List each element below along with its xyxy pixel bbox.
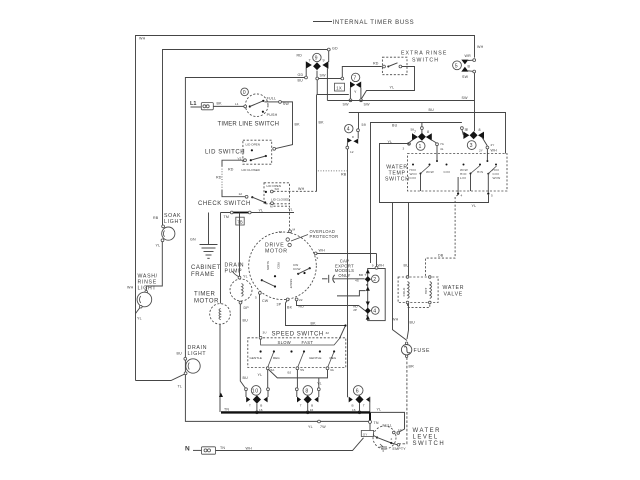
svg-text:9: 9 — [317, 256, 319, 260]
svg-text:BU: BU — [410, 321, 416, 325]
svg-text:12: 12 — [350, 150, 354, 154]
svg-text:7W: 7W — [320, 425, 326, 429]
svg-text:LEVEL: LEVEL — [413, 435, 439, 441]
svg-text:RD: RD — [297, 54, 303, 58]
svg-text:7: 7 — [309, 59, 311, 63]
svg-text:GD: GD — [298, 73, 304, 77]
svg-text:8: 8 — [427, 130, 429, 134]
svg-text:2: 2 — [373, 277, 377, 283]
svg-text:BK: BK — [311, 322, 317, 326]
svg-text:LID CLOSED: LID CLOSED — [271, 198, 290, 202]
svg-text:WH: WH — [298, 187, 305, 191]
svg-text:2: 2 — [391, 437, 393, 441]
svg-text:WH: WH — [378, 263, 385, 267]
svg-text:LID SWITCH: LID SWITCH — [205, 150, 245, 156]
svg-text:22: 22 — [299, 298, 303, 302]
svg-text:8: 8 — [479, 128, 481, 132]
svg-text:C=O: C=O — [410, 176, 417, 180]
svg-text:BK: BK — [319, 121, 325, 125]
svg-text:SLOW: SLOW — [278, 340, 292, 345]
svg-text:SW: SW — [320, 74, 327, 78]
svg-text:LID OPEN: LID OPEN — [246, 142, 260, 146]
svg-text:EMPTY: EMPTY — [393, 447, 407, 451]
svg-text:SWITCH: SWITCH — [412, 58, 439, 64]
svg-text:BU: BU — [243, 376, 249, 380]
svg-text:Y: Y — [354, 90, 357, 94]
svg-text:LID CLOSED: LID CLOSED — [242, 168, 261, 172]
svg-text:TN: TN — [220, 446, 225, 450]
svg-text:COLD: COLD — [402, 287, 406, 296]
svg-text:BU: BU — [429, 108, 435, 112]
svg-text:BK: BK — [217, 102, 223, 106]
svg-text:RD: RD — [228, 168, 234, 172]
svg-text:B: B — [366, 283, 368, 287]
svg-text:BK: BK — [287, 306, 293, 310]
svg-text:1X: 1X — [336, 85, 342, 90]
svg-text:7B: 7B — [237, 219, 243, 224]
svg-text:FRAME: FRAME — [191, 272, 215, 278]
svg-text:C=O: C=O — [444, 170, 451, 174]
svg-text:N: N — [185, 446, 190, 453]
svg-text:TL: TL — [178, 385, 183, 389]
svg-text:LIGHT: LIGHT — [188, 351, 207, 357]
svg-text:RB: RB — [341, 173, 347, 177]
svg-text:BR: BR — [359, 273, 364, 277]
svg-text:YL: YL — [317, 382, 322, 386]
svg-text:WH: WH — [139, 37, 146, 41]
svg-text:YL: YL — [243, 275, 248, 279]
svg-text:ONLY: ONLY — [338, 273, 350, 278]
svg-text:GENTLE: GENTLE — [250, 356, 262, 360]
svg-text:SO: SO — [275, 187, 280, 191]
svg-text:BU: BU — [177, 352, 183, 356]
svg-text:9: 9 — [323, 59, 325, 63]
svg-text:YL: YL — [288, 208, 293, 212]
svg-text:1: 1 — [419, 144, 423, 150]
svg-text:SW: SW — [462, 96, 469, 100]
svg-text:TN: TN — [374, 421, 379, 425]
svg-text:8: 8 — [305, 389, 309, 395]
svg-text:SWITCH: SWITCH — [385, 177, 410, 183]
svg-text:WATER: WATER — [413, 428, 442, 434]
svg-text:WR: WR — [465, 54, 472, 58]
svg-text:4: 4 — [347, 127, 351, 133]
svg-text:7: 7 — [353, 76, 357, 82]
svg-text:59: 59 — [362, 123, 366, 127]
svg-text:W=W: W=W — [426, 170, 434, 174]
svg-text:7: 7 — [414, 130, 416, 134]
svg-text:START: START — [289, 279, 293, 289]
svg-text:BU: BU — [392, 124, 398, 128]
svg-text:TIMER: TIMER — [194, 292, 216, 298]
svg-text:WH: WH — [392, 318, 399, 322]
svg-text:H=S: H=S — [477, 170, 483, 174]
svg-text:BK: BK — [295, 123, 301, 127]
svg-text:L=O: L=O — [460, 176, 467, 180]
svg-text:T: T — [366, 314, 368, 318]
svg-text:VALVE: VALVE — [444, 292, 463, 298]
svg-text:YL: YL — [137, 317, 142, 321]
svg-text:L1: L1 — [190, 101, 196, 107]
svg-text:WH: WH — [246, 447, 253, 451]
svg-text:CCW: CCW — [293, 267, 300, 271]
svg-text:BU: BU — [298, 79, 304, 83]
svg-text:5S: 5S — [300, 368, 304, 372]
svg-text:GD: GD — [332, 47, 338, 51]
svg-text:M: M — [270, 205, 273, 209]
svg-text:4: 4 — [461, 194, 463, 198]
svg-text:4L: 4L — [440, 147, 444, 151]
svg-text:FULL: FULL — [383, 424, 393, 428]
svg-text:SW: SW — [364, 103, 371, 107]
svg-text:SLOW: SLOW — [266, 261, 270, 270]
svg-text:HOT: HOT — [424, 288, 428, 295]
svg-text:YL: YL — [308, 425, 313, 429]
svg-text:TN: TN — [224, 408, 229, 412]
svg-text:DP: DP — [244, 306, 250, 310]
svg-text:BR: BR — [409, 365, 415, 369]
svg-text:T: T — [363, 404, 365, 408]
svg-text:YL: YL — [258, 373, 263, 377]
svg-text:M: M — [293, 228, 296, 232]
svg-text:INTERNAL TIMER BUSS: INTERNAL TIMER BUSS — [333, 20, 415, 26]
svg-text:3: 3 — [403, 147, 405, 151]
svg-text:2Y: 2Y — [479, 149, 483, 153]
svg-text:CW: CW — [262, 299, 269, 303]
svg-text:YL: YL — [472, 204, 477, 208]
svg-text:9: 9 — [372, 263, 374, 267]
svg-text:YL: YL — [156, 244, 161, 248]
svg-text:GENTLE: GENTLE — [309, 356, 321, 360]
svg-text:5: 5 — [255, 296, 257, 300]
svg-text:YL: YL — [259, 209, 264, 213]
svg-text:5: 5 — [455, 63, 459, 69]
svg-text:BJ: BJ — [288, 371, 292, 375]
svg-text:SW: SW — [283, 102, 290, 106]
svg-text:3P: 3P — [277, 303, 282, 307]
svg-text:PUSH: PUSH — [267, 113, 278, 117]
svg-text:REG: REG — [273, 356, 280, 360]
svg-text:YL: YL — [377, 408, 382, 412]
svg-text:GN: GN — [190, 238, 196, 242]
svg-text:4: 4 — [373, 309, 377, 315]
svg-text:REG: REG — [330, 356, 337, 360]
svg-text:7: 7 — [466, 128, 468, 132]
svg-text:SPEED SWITCH: SPEED SWITCH — [272, 332, 324, 338]
svg-text:8: 8 — [352, 135, 354, 139]
svg-text:SW: SW — [343, 103, 350, 107]
svg-text:EXTRA RINSE: EXTRA RINSE — [401, 51, 447, 57]
svg-text:RD: RD — [373, 62, 379, 66]
svg-text:L1: L1 — [235, 102, 239, 106]
svg-text:3: 3 — [470, 143, 474, 149]
svg-text:WH: WH — [491, 149, 498, 153]
svg-text:SW: SW — [462, 75, 469, 79]
svg-text:FULL: FULL — [267, 97, 277, 101]
svg-text:DB: DB — [438, 254, 444, 258]
svg-text:BU: BU — [243, 319, 249, 323]
svg-text:32: 32 — [326, 331, 330, 335]
svg-text:BU: BU — [404, 264, 410, 268]
svg-text:TM: TM — [224, 215, 230, 219]
svg-text:RB: RB — [153, 216, 159, 220]
svg-text:12: 12 — [239, 192, 243, 196]
svg-text:WATER: WATER — [443, 285, 465, 291]
svg-text:B: B — [468, 64, 471, 68]
svg-text:6: 6 — [356, 389, 360, 395]
svg-text:WH: WH — [127, 286, 134, 290]
svg-text:2P: 2P — [353, 308, 357, 312]
svg-text:CABINET: CABINET — [191, 265, 221, 271]
svg-text:CHECK SWITCH: CHECK SWITCH — [198, 201, 251, 207]
svg-text:0: 0 — [243, 90, 247, 96]
svg-text:FUSE: FUSE — [414, 348, 431, 354]
svg-text:MOTOR: MOTOR — [265, 249, 288, 255]
svg-text:RED: RED — [277, 262, 281, 269]
svg-text:W=W: W=W — [493, 176, 501, 180]
svg-text:PROTECTOR: PROTECTOR — [310, 234, 339, 239]
svg-text:GY: GY — [363, 432, 367, 436]
svg-text:4S: 4S — [355, 278, 359, 282]
svg-text:2Y: 2Y — [491, 143, 495, 147]
svg-text:LIGHT: LIGHT — [164, 219, 183, 225]
svg-text:9: 9 — [315, 56, 319, 62]
svg-text:WH: WH — [477, 45, 484, 49]
svg-text:5: 5 — [491, 194, 493, 198]
svg-text:YL: YL — [390, 86, 395, 90]
svg-text:RD: RD — [216, 176, 222, 180]
svg-text:FAST: FAST — [302, 340, 314, 345]
svg-text:WH: WH — [319, 249, 326, 253]
svg-text:T: T — [249, 404, 251, 408]
svg-text:TIMER LINE SWITCH: TIMER LINE SWITCH — [218, 122, 280, 128]
svg-text:T: T — [365, 273, 367, 277]
svg-text:MOTOR: MOTOR — [194, 299, 219, 305]
svg-text:SWITCH: SWITCH — [413, 441, 446, 447]
svg-text:10: 10 — [252, 389, 259, 395]
svg-text:3U: 3U — [263, 331, 267, 335]
